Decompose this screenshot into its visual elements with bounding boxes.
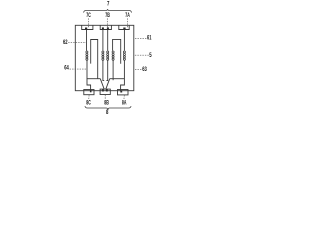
svg-text:61: 61 <box>147 36 152 42</box>
svg-text:7C: 7C <box>86 13 91 19</box>
svg-text:64: 64 <box>64 66 69 72</box>
leader 8C <box>88 95 90 100</box>
leader lines (dashed) <box>68 18 149 99</box>
leader 62 <box>68 42 86 44</box>
svg-text:8B: 8B <box>104 101 109 107</box>
wire C lower <box>87 60 91 90</box>
terminal box 7C <box>82 25 93 29</box>
svg-text:7: 7 <box>107 1 110 8</box>
port box 8C <box>84 90 94 95</box>
electrode marks in 7B <box>102 27 104 29</box>
leader 8B <box>104 95 106 100</box>
leader 8A <box>123 95 125 100</box>
terminal box 7B <box>100 25 111 29</box>
funnel wall right <box>106 79 110 90</box>
terminal box 7A <box>119 25 129 29</box>
coil B-right <box>107 51 109 60</box>
leader 63 <box>135 68 142 70</box>
electrode mark in 7C <box>85 28 87 30</box>
electrode mark 8C <box>90 90 92 92</box>
coil C <box>86 51 88 60</box>
leader 7A <box>126 18 128 27</box>
leader 64 <box>70 68 87 70</box>
svg-text:62: 62 <box>63 40 68 46</box>
svg-text:63: 63 <box>142 67 147 73</box>
wall leg lower <box>112 60 114 80</box>
wire A lower <box>121 60 125 90</box>
shelf left <box>87 78 101 80</box>
svg-text:8: 8 <box>106 109 109 116</box>
brace under 8A-8C <box>85 106 131 110</box>
leader 5 <box>135 54 149 56</box>
svg-text:7A: 7A <box>125 13 130 19</box>
wire B-right upper <box>107 30 109 51</box>
leader 61 <box>135 37 147 39</box>
electrode mark in 7A <box>123 28 125 30</box>
case outline 5 (outer rectangle) <box>75 25 134 90</box>
electrode marks in 8B <box>102 89 104 91</box>
brace over 7A-7C <box>84 9 132 12</box>
partition wall between B and A <box>113 39 121 63</box>
electrode mark 8A <box>120 90 122 92</box>
svg-text:8A: 8A <box>122 100 127 106</box>
shelf right <box>110 78 125 80</box>
partition wall between C and B <box>91 40 98 79</box>
coil A <box>123 51 125 60</box>
leader 7B <box>106 18 108 27</box>
wire B-right lower <box>106 60 107 80</box>
wire A upper <box>123 30 125 51</box>
wire C upper <box>86 30 88 51</box>
port box 8B <box>100 89 110 94</box>
svg-text:8C: 8C <box>86 101 91 107</box>
svg-text:5: 5 <box>149 52 152 59</box>
coil on wall leg <box>112 51 114 60</box>
coil B-left <box>102 51 104 60</box>
svg-text:7B: 7B <box>105 13 110 19</box>
wire B-left lower <box>103 60 104 80</box>
leader 7C <box>87 18 89 27</box>
funnel wall left <box>100 79 104 90</box>
port box 8A <box>118 90 129 95</box>
wire B-left upper <box>102 30 104 51</box>
